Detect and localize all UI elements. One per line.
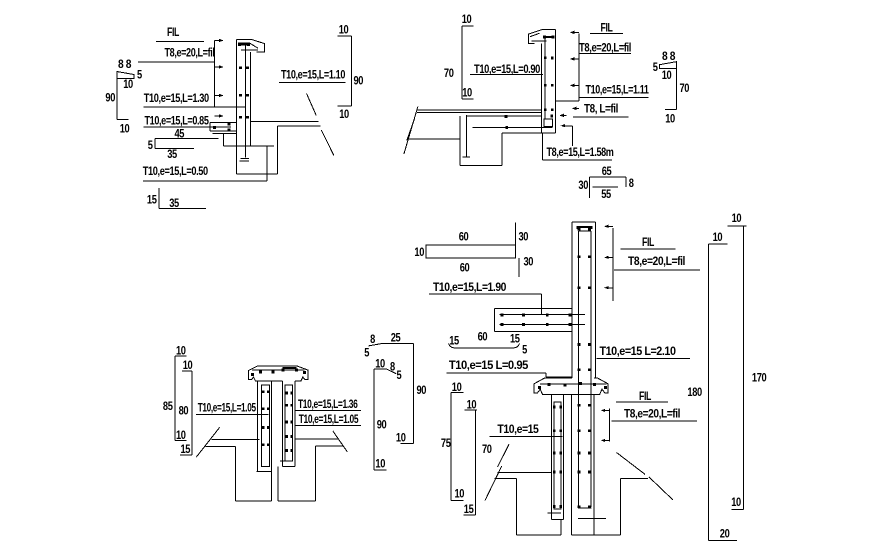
svg-text:10: 10 — [339, 107, 349, 121]
V2 label T10,e=15,L=0.90 — [470, 62, 543, 76]
V4 label T10,e=15,L=1.05 left — [196, 401, 268, 415]
svg-text:10: 10 — [467, 398, 477, 412]
svg-text:T8, L=fil: T8, L=fil — [584, 102, 618, 116]
V3 left pit outline — [494, 479, 561, 535]
V4 left pit outline — [235, 447, 271, 502]
svg-text:70: 70 — [482, 442, 492, 456]
V4 right wall faces — [283, 381, 296, 467]
svg-text:T10,e=15,L=1.36: T10,e=15,L=1.36 — [298, 397, 358, 411]
V2 ground line left — [408, 138, 460, 140]
V1 wall inner face — [250, 52, 252, 146]
svg-text:5: 5 — [397, 368, 402, 382]
V4 cap rebar bar with dots — [251, 368, 306, 376]
svg-text:10: 10 — [176, 344, 186, 358]
svg-text:85: 85 — [163, 399, 173, 413]
svg-text:5: 5 — [137, 68, 142, 82]
V1 slab bottom line — [223, 145, 273, 147]
svg-text:15: 15 — [449, 334, 459, 348]
V3 lower wall rebar dots — [578, 404, 591, 508]
svg-text:FIL: FIL — [642, 235, 654, 249]
svg-text:T8,e=20,L=fil: T8,e=20,L=fil — [628, 254, 685, 268]
svg-text:170: 170 — [752, 371, 767, 385]
svg-text:90: 90 — [377, 418, 387, 432]
svg-text:T10,e=15 L=0.95: T10,e=15 L=0.95 — [449, 358, 529, 372]
V3 label T8,e=20,L=fil lower — [611, 407, 697, 422]
svg-text:55: 55 — [601, 187, 611, 201]
svg-text:T8,e=20,L=fil: T8,e=20,L=fil — [579, 41, 631, 55]
svg-text:8 8: 8 8 — [662, 49, 676, 63]
V3 label T10,e=15 L=2.10 — [596, 344, 690, 359]
V3 dim bracket 170 right line — [728, 211, 767, 509]
V4 T-cap outline — [249, 366, 308, 381]
V2 cap bottom line — [531, 40, 546, 42]
svg-text:65: 65 — [602, 164, 612, 178]
svg-text:10: 10 — [176, 428, 186, 442]
svg-text:10: 10 — [375, 457, 385, 471]
V1 label T10,e=15,L=0.50 — [143, 164, 267, 181]
V3 left dim bracket 10 / 15 inner — [463, 398, 477, 517]
V2 label T8, L=fil — [559, 102, 628, 147]
V3 label T10,e=15 L=0.95 — [447, 358, 572, 377]
V1 floor line right — [278, 125, 321, 127]
V1 line under hook — [213, 133, 237, 135]
V3 upper wall faces — [571, 222, 573, 378]
V4 left break diagonal — [196, 427, 220, 457]
V2 label T10,e=15,L=1.11 — [579, 83, 649, 98]
svg-text:10: 10 — [662, 68, 672, 82]
V4 labels right T10,e=15,L=1.36 and T10,e=15,L=1.05 — [295, 397, 361, 426]
V4 left inner dim bracket 10 / 80 / 15 — [179, 358, 193, 456]
svg-text:25: 25 — [391, 331, 401, 345]
V3 left hanging wall — [551, 394, 563, 519]
svg-text:35: 35 — [167, 147, 177, 161]
svg-text:T10,e=15,L=1.90: T10,e=15,L=1.90 — [433, 280, 507, 294]
V1 left dim bracket 8 8 / 5 / 10 / 90 / 10 — [105, 57, 142, 136]
svg-text:20: 20 — [720, 526, 730, 540]
V3 wall vertical rebar pair — [578, 231, 580, 507]
svg-text:80: 80 — [179, 404, 189, 418]
V1 coping cap outline — [237, 39, 265, 52]
svg-text:35: 35 — [169, 196, 179, 210]
svg-text:5: 5 — [653, 60, 658, 74]
V4 ground line right lower — [315, 445, 343, 447]
V1 wall vertical rebar — [245, 44, 247, 157]
V3 cap rebar bar with dots — [538, 382, 607, 389]
svg-text:FIL: FIL — [639, 389, 651, 403]
V1 dim bracket 5 / 35 — [148, 138, 219, 161]
svg-text:10: 10 — [375, 357, 385, 371]
svg-text:75: 75 — [441, 436, 451, 450]
svg-text:T10,e=15,L=1.10: T10,e=15,L=1.10 — [281, 68, 346, 82]
svg-text:T10,e=15: T10,e=15 — [497, 422, 539, 436]
svg-text:8: 8 — [370, 332, 375, 346]
svg-text:60: 60 — [478, 330, 488, 344]
svg-text:5: 5 — [364, 346, 369, 360]
V4 right dim bracket 10 / 8 / 5 inner — [374, 357, 402, 471]
V2 slab structural line — [466, 115, 541, 117]
svg-text:10: 10 — [455, 487, 465, 501]
V3 label T10,e=15 lower — [490, 422, 563, 436]
V1 label T10,e=15,L=0.85 — [144, 114, 231, 128]
V2 wall rebar dots — [544, 56, 547, 59]
svg-text:30: 30 — [578, 178, 588, 192]
svg-text:70: 70 — [680, 81, 690, 95]
V3 left wall rebar cage — [548, 402, 563, 513]
V4 ground line left lower — [206, 446, 236, 448]
V1 footing outline — [223, 126, 277, 181]
svg-text:FIL: FIL — [167, 25, 179, 39]
V1 wall rebar dots — [239, 66, 242, 69]
svg-text:30: 30 — [524, 255, 534, 269]
svg-text:8: 8 — [390, 360, 395, 374]
V1 rebar hook left of wall — [210, 122, 236, 131]
svg-text:T10,e=15,L=1.30: T10,e=15,L=1.30 — [144, 91, 210, 105]
V2 wall vertical rebar — [544, 37, 546, 119]
svg-text:T10,e=15,L=1.05: T10,e=15,L=1.05 — [198, 401, 257, 415]
V1 dim bracket 15 / 35 — [147, 188, 206, 210]
svg-text:10: 10 — [414, 245, 424, 259]
V4 ground line left — [212, 438, 260, 440]
V3 dim figure 60 / 30 / 10 / 60 / 30 — [414, 223, 533, 277]
svg-text:10: 10 — [183, 358, 193, 372]
V3 dim 15 60 15 5 with curly line — [449, 330, 528, 357]
V1 label T10,e=15,L=1.10 — [279, 68, 346, 83]
V1 label T10,e=15,L=1.30 — [144, 91, 246, 107]
V3 slab rebar rows with dots — [500, 314, 585, 326]
V3 left dim bracket 10 / 75 / 10 outer — [441, 380, 465, 501]
svg-text:10: 10 — [731, 495, 741, 509]
V2 label T8,e=15,L=1.58m — [543, 133, 614, 160]
V3 left break diagonals — [485, 466, 502, 500]
V4 left outer dim bracket 10 / 85 / 10 — [163, 344, 187, 443]
svg-text:T10,e=15,L=1.05: T10,e=15,L=1.05 — [299, 412, 359, 426]
V1 leader line with arrows — [214, 39, 223, 118]
svg-text:90: 90 — [354, 74, 364, 88]
svg-text:15: 15 — [510, 332, 520, 346]
svg-text:10: 10 — [462, 12, 472, 26]
V3 label T8,e=20,L=fil upper — [614, 254, 700, 270]
V3 lower centre wall faces — [571, 394, 573, 535]
svg-text:15: 15 — [147, 193, 157, 207]
V1 cap bottom line — [241, 49, 258, 51]
V2 cap rebar bar with end dots — [544, 36, 554, 38]
svg-text:10: 10 — [732, 211, 742, 225]
V3 right upper leader with arrows — [604, 225, 613, 301]
V1 coping cap inner line — [238, 43, 258, 48]
V2 dim figure 65 / 30 / 55 / 8 — [578, 164, 634, 201]
V4 right break diagonal — [333, 431, 348, 452]
V1 right dim bracket 10 / 90 / 10 — [338, 23, 364, 122]
svg-text:FIL: FIL — [601, 21, 613, 35]
V1 label FIL — [156, 25, 204, 42]
V4 ground line right — [295, 438, 338, 440]
svg-text:10: 10 — [123, 77, 133, 91]
svg-text:90: 90 — [105, 91, 115, 105]
svg-text:5: 5 — [148, 138, 153, 152]
svg-text:T10,e=15,L=0.50: T10,e=15,L=0.50 — [143, 164, 209, 178]
V3 lower right leader with arrows — [601, 409, 610, 443]
V2 slab top double line — [417, 109, 542, 111]
svg-text:10: 10 — [462, 86, 472, 100]
svg-text:15: 15 — [464, 502, 474, 516]
svg-text:180: 180 — [687, 385, 702, 399]
V2 wall inner face — [541, 43, 543, 133]
svg-text:30: 30 — [519, 230, 529, 244]
V2 coping cap inner line — [530, 33, 540, 37]
V3 right break diagonals — [617, 453, 646, 475]
V2 wall outer face — [555, 30, 557, 133]
V4 left wall faces — [258, 381, 272, 501]
V3 lower wall rebar hooks — [578, 507, 592, 509]
V2 break diagonals — [404, 107, 418, 155]
svg-text:70: 70 — [444, 66, 454, 80]
V2 left dim bracket 10 / 70 / 10 — [444, 12, 474, 100]
svg-text:60: 60 — [459, 230, 469, 244]
V2 slab bottom rebar bar — [472, 126, 552, 128]
svg-text:T10,e=15,L=1.11: T10,e=15,L=1.11 — [586, 83, 650, 97]
svg-text:10: 10 — [452, 380, 462, 394]
V3 label FIL upper — [621, 235, 676, 249]
V3 label FIL lower — [616, 389, 668, 403]
V1 wall outer face — [236, 39, 238, 174]
svg-text:T8,e=20,L=fil: T8,e=20,L=fil — [624, 407, 680, 421]
V3 slab flange left — [495, 308, 572, 331]
svg-text:10: 10 — [665, 112, 675, 126]
V2 coping cap outline — [528, 30, 555, 44]
svg-text:8 8: 8 8 — [118, 57, 132, 71]
svg-text:T10,e=15 L=2.10: T10,e=15 L=2.10 — [600, 344, 677, 358]
svg-text:T8,e=20,L=fil: T8,e=20,L=fil — [165, 46, 215, 60]
svg-text:10: 10 — [713, 230, 723, 244]
V3 dim bracket 180 left line — [709, 230, 738, 540]
V4 left wall rebar cage — [257, 385, 270, 472]
V1 label T8,e=20,L=fil — [138, 46, 215, 62]
svg-text:90: 90 — [417, 383, 427, 397]
svg-text:60: 60 — [460, 261, 470, 275]
V3 wall rebar dots — [578, 228, 591, 371]
V2 footing outline — [460, 116, 555, 165]
svg-text:T8,e=15,L=1.58m: T8,e=15,L=1.58m — [547, 145, 614, 159]
V2 wall bottom rebar hook — [542, 119, 556, 133]
V1 break diagonal — [307, 93, 317, 115]
V1 slab top line — [251, 120, 319, 122]
svg-text:10: 10 — [339, 23, 349, 37]
V1 cap rebar bar with end dots — [240, 43, 249, 45]
V3 ground line left — [498, 471, 552, 473]
svg-text:5: 5 — [522, 343, 527, 357]
V2 right small dim bracket 8 8 / 5 / 10 / 70 / 10 — [653, 49, 690, 126]
V4 right wall rebar cage — [280, 385, 293, 461]
svg-text:T10,e=15,L=0.90: T10,e=15,L=0.90 — [474, 62, 541, 76]
V2 label T8,e=20,L=fil — [579, 41, 631, 55]
V3 label T10,e=15,L=1.90 — [429, 280, 542, 315]
svg-text:15: 15 — [181, 442, 191, 456]
V3 right pit outline — [572, 479, 648, 535]
svg-text:10: 10 — [120, 122, 130, 136]
V3 T-cap outline — [534, 378, 608, 394]
V2 right leader line with arrows — [556, 31, 579, 110]
V4 right pit outline — [278, 446, 315, 501]
V2 slab end rebar L — [463, 115, 471, 157]
V2 label FIL — [590, 21, 623, 35]
svg-text:T10,e=15,L=0.85: T10,e=15,L=0.85 — [145, 114, 210, 128]
V4 right dim bracket 8 / 25 / 5 outer — [364, 331, 427, 445]
svg-text:10: 10 — [396, 431, 406, 445]
svg-text:8: 8 — [629, 176, 634, 190]
